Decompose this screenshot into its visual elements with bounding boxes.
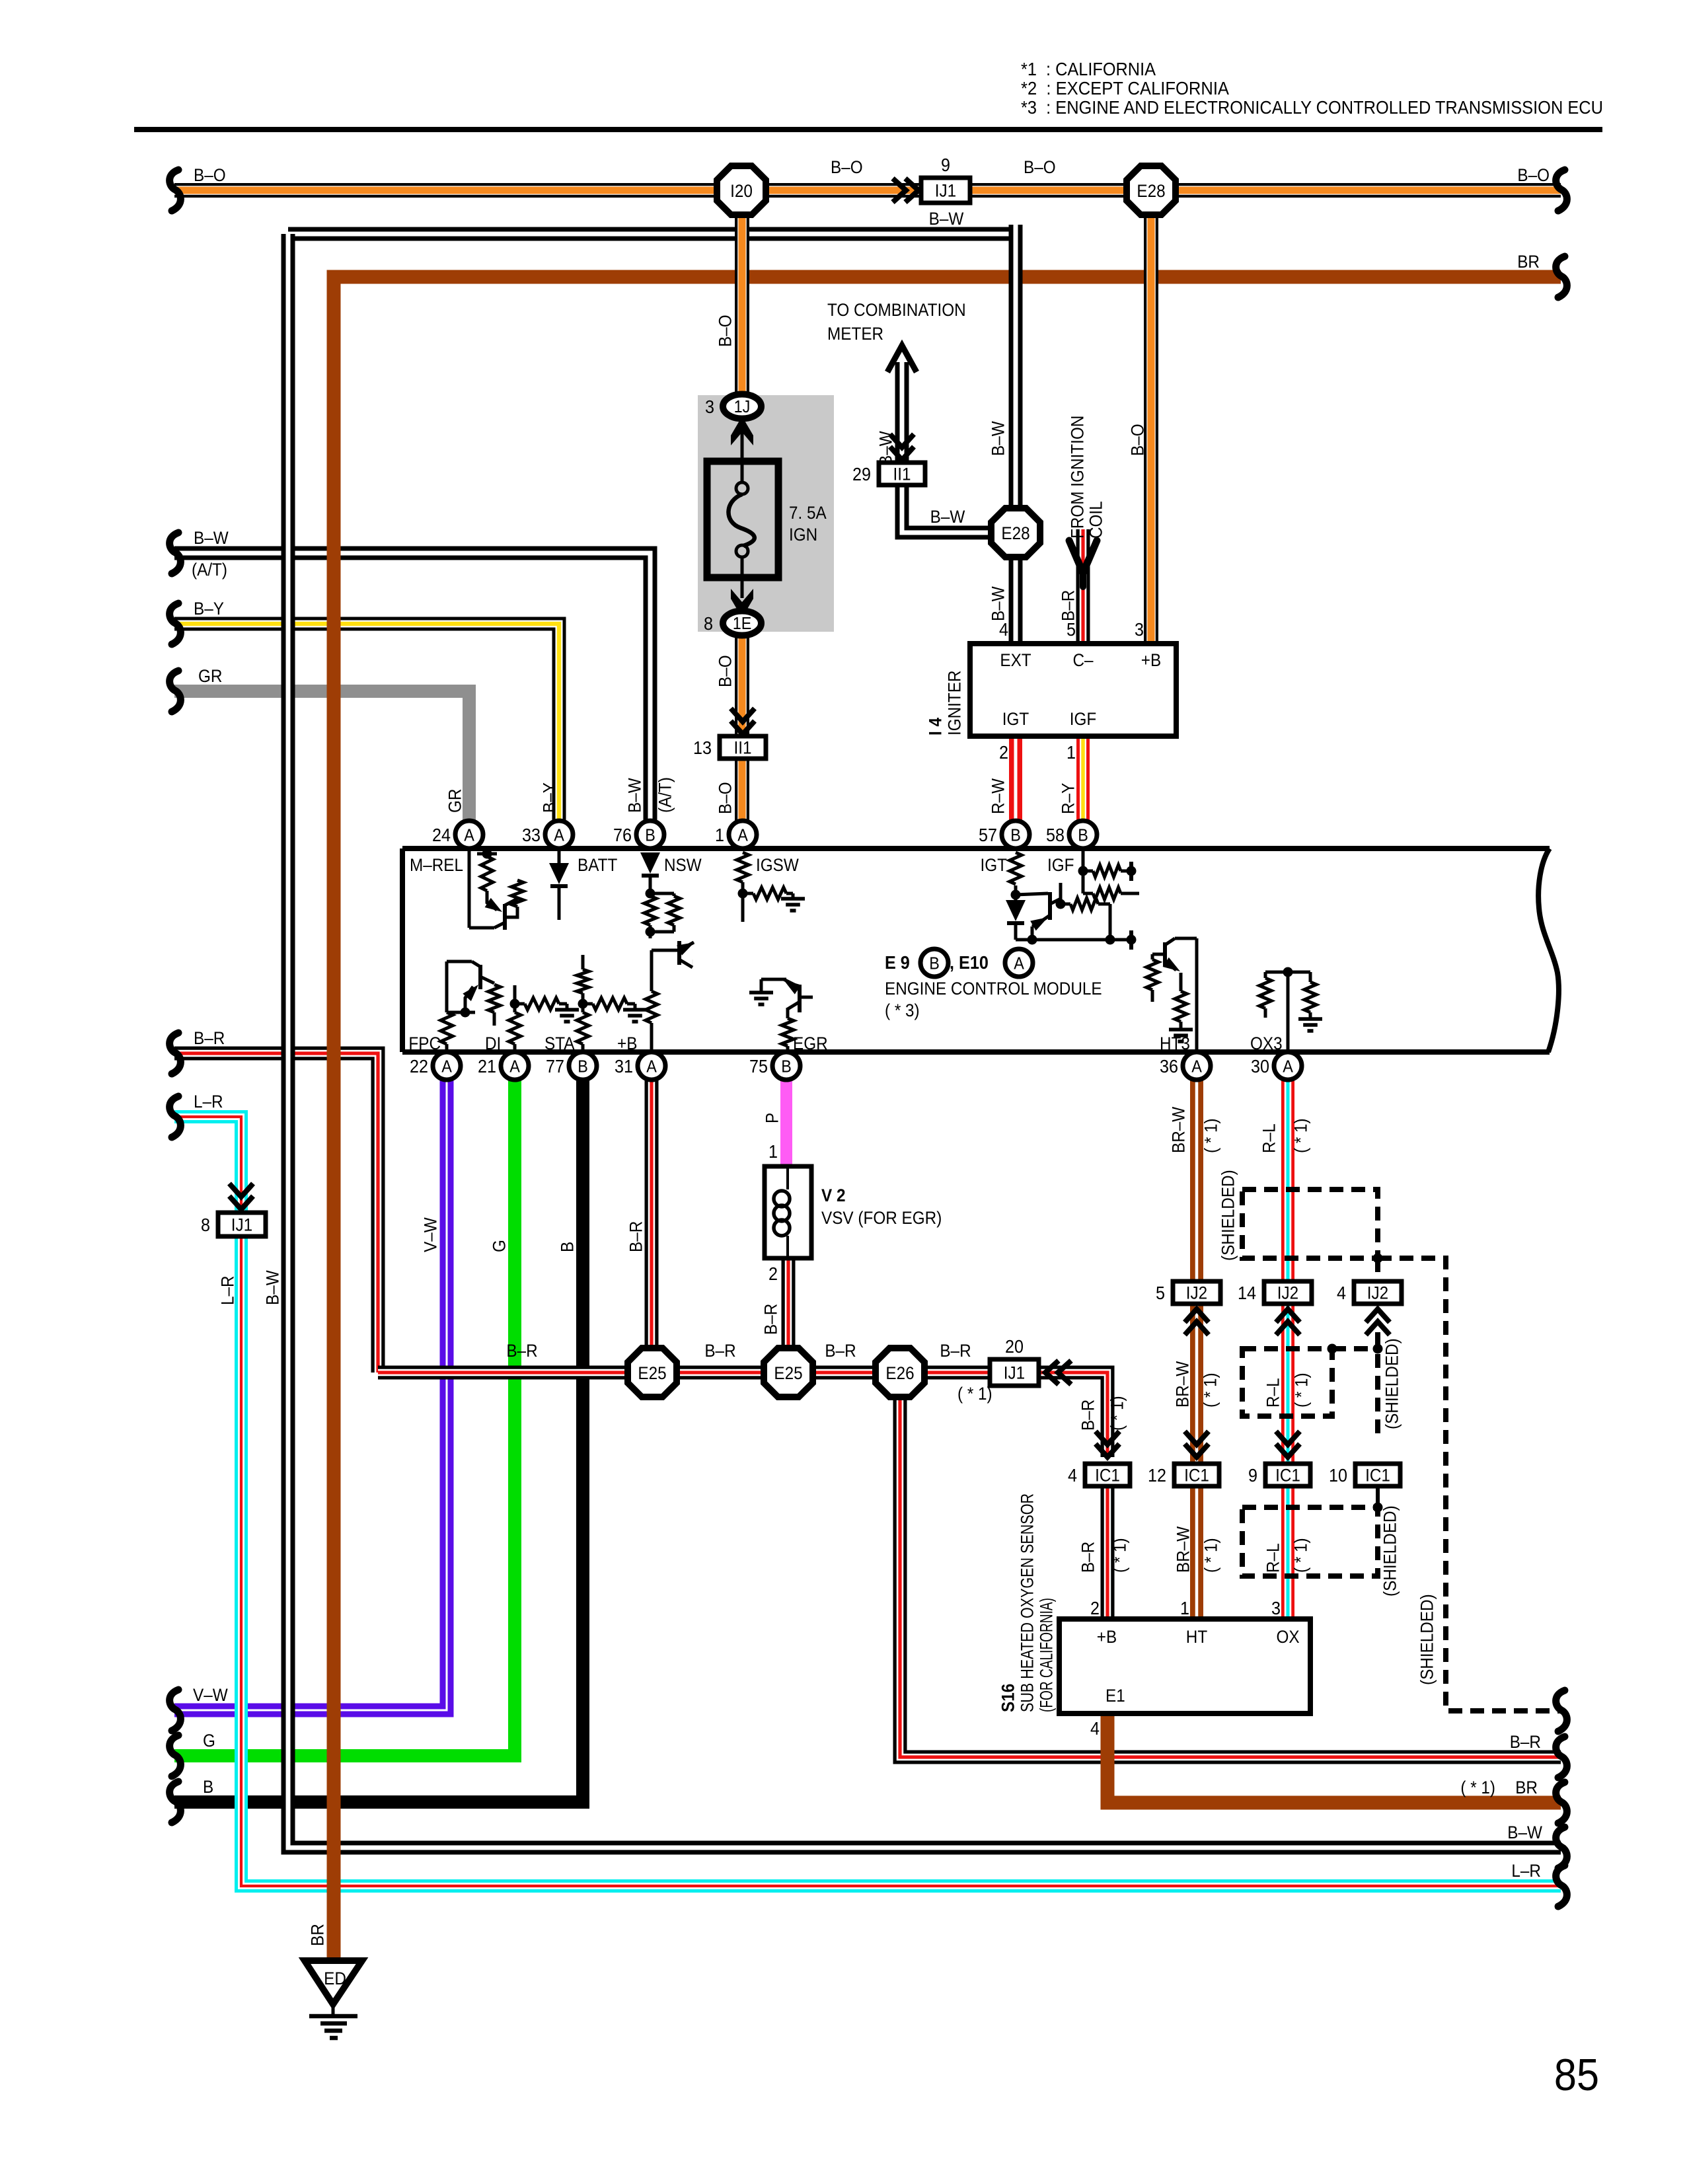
svg-text:B: B xyxy=(578,1057,588,1076)
svg-text:1: 1 xyxy=(1180,1598,1189,1618)
svg-text:29: 29 xyxy=(852,464,871,484)
svg-text:IGN: IGN xyxy=(789,525,817,545)
svg-text:+B: +B xyxy=(1097,1627,1117,1647)
svg-text:BATT: BATT xyxy=(578,855,617,875)
svg-text:B: B xyxy=(558,1242,578,1252)
svg-text:B–R: B–R xyxy=(1078,1542,1098,1573)
svg-text:B–R: B–R xyxy=(1059,590,1078,621)
svg-text:58: 58 xyxy=(1046,825,1065,845)
svg-text:9: 9 xyxy=(1248,1465,1257,1486)
svg-text:HT: HT xyxy=(1186,1627,1207,1647)
svg-text:(A/T): (A/T) xyxy=(655,777,675,813)
svg-text:1: 1 xyxy=(1067,742,1076,763)
svg-text:B–W: B–W xyxy=(625,778,645,813)
svg-text:(FOR CALIFORNIA): (FOR CALIFORNIA) xyxy=(1037,1598,1057,1712)
svg-text:( * 1): ( * 1) xyxy=(1110,1538,1130,1573)
svg-text:M–REL: M–REL xyxy=(410,855,463,875)
svg-text:GR: GR xyxy=(445,789,465,813)
svg-text:( * 1): ( * 1) xyxy=(1291,1118,1311,1153)
svg-text:( * 1): ( * 1) xyxy=(1201,1538,1221,1573)
svg-text:G: G xyxy=(490,1240,509,1252)
svg-text:B–Y: B–Y xyxy=(540,782,560,813)
svg-text:IJ1: IJ1 xyxy=(231,1215,252,1235)
svg-text:E28: E28 xyxy=(1137,181,1165,201)
svg-text:IJ1: IJ1 xyxy=(935,181,956,201)
svg-text:, E10: , E10 xyxy=(950,952,989,973)
svg-text:METER: METER xyxy=(827,324,883,344)
svg-text:B–W: B–W xyxy=(263,1270,283,1305)
svg-text:( * 1): ( * 1) xyxy=(1291,1538,1311,1573)
svg-text:5: 5 xyxy=(1156,1283,1165,1303)
svg-text:IC1: IC1 xyxy=(1184,1466,1209,1486)
svg-text:E26: E26 xyxy=(885,1363,914,1383)
svg-text:22: 22 xyxy=(410,1056,428,1076)
svg-text:24: 24 xyxy=(432,825,451,845)
svg-text:IJ1: IJ1 xyxy=(1004,1363,1025,1383)
svg-text:B–O: B–O xyxy=(1517,165,1550,185)
svg-text:B–W: B–W xyxy=(876,431,896,466)
svg-text:2: 2 xyxy=(768,1263,778,1284)
svg-text:(SHIELDED): (SHIELDED) xyxy=(1417,1594,1437,1685)
svg-text:SUB HEATED OXYGEN SENSOR: SUB HEATED OXYGEN SENSOR xyxy=(1018,1493,1037,1712)
svg-text:DI: DI xyxy=(485,1034,501,1053)
svg-text:R–L: R–L xyxy=(1263,1378,1283,1408)
svg-text:( * 1): ( * 1) xyxy=(957,1384,992,1404)
svg-text:E 9: E 9 xyxy=(885,952,910,973)
svg-text:7. 5A: 7. 5A xyxy=(789,503,827,523)
svg-text:A: A xyxy=(441,1057,452,1076)
svg-text:10: 10 xyxy=(1329,1465,1347,1486)
svg-text:14: 14 xyxy=(1238,1283,1256,1303)
svg-text:A: A xyxy=(1191,1057,1202,1076)
svg-text:B–R: B–R xyxy=(1510,1732,1541,1752)
svg-text:OX: OX xyxy=(1276,1627,1299,1647)
svg-text:1E: 1E xyxy=(733,613,752,633)
svg-text:E25: E25 xyxy=(774,1363,802,1383)
svg-text:IC1: IC1 xyxy=(1095,1466,1120,1486)
svg-text:IC1: IC1 xyxy=(1275,1466,1300,1486)
svg-text:3: 3 xyxy=(1135,619,1144,640)
svg-text:B–O: B–O xyxy=(1024,157,1056,177)
svg-text:*3 : ENGINE AND ELECTRONICALL: *3 : ENGINE AND ELECTRONICALLY CONTROLLE… xyxy=(1021,97,1603,118)
svg-text:8: 8 xyxy=(704,613,713,634)
svg-text:G: G xyxy=(203,1731,215,1751)
svg-text:GR: GR xyxy=(198,666,223,686)
svg-text:2: 2 xyxy=(1090,1598,1100,1618)
svg-text:B–R: B–R xyxy=(761,1304,781,1335)
svg-text:1: 1 xyxy=(768,1141,778,1162)
svg-text:E28: E28 xyxy=(1001,523,1030,543)
svg-text:A: A xyxy=(646,1057,657,1076)
svg-text:A: A xyxy=(737,825,748,845)
svg-text:FROM IGNITION: FROM IGNITION xyxy=(1068,416,1088,539)
svg-text:L–R: L–R xyxy=(194,1092,223,1111)
svg-text:BR–W: BR–W xyxy=(1173,1361,1193,1408)
svg-text:EGR: EGR xyxy=(793,1034,828,1053)
svg-text:S16: S16 xyxy=(998,1684,1018,1712)
svg-text:IC1: IC1 xyxy=(1365,1466,1390,1486)
svg-text:R–Y: R–Y xyxy=(1059,783,1078,814)
svg-text:*2 : EXCEPT CALIFORNIA: *2 : EXCEPT CALIFORNIA xyxy=(1021,78,1229,98)
svg-text:13: 13 xyxy=(693,737,712,758)
svg-text:R–L: R–L xyxy=(1263,1543,1283,1573)
svg-text:HT3: HT3 xyxy=(1160,1034,1190,1053)
svg-text:4: 4 xyxy=(1090,1718,1100,1739)
svg-text:R–L: R–L xyxy=(1259,1123,1279,1153)
svg-text:B–R: B–R xyxy=(825,1341,856,1361)
svg-text:(SHIELDED): (SHIELDED) xyxy=(1380,1505,1400,1597)
svg-text:1: 1 xyxy=(715,825,724,845)
svg-text:B–O: B–O xyxy=(1128,424,1148,456)
svg-text:3: 3 xyxy=(705,396,714,417)
svg-text:C–: C– xyxy=(1072,650,1093,670)
svg-text:COIL: COIL xyxy=(1086,501,1106,539)
svg-text:B–W: B–W xyxy=(989,586,1008,621)
svg-text:IGF: IGF xyxy=(1070,709,1097,729)
svg-text:B–R: B–R xyxy=(194,1028,225,1048)
svg-text:5: 5 xyxy=(1067,619,1076,640)
svg-text:76: 76 xyxy=(613,825,632,845)
svg-text:B: B xyxy=(781,1057,792,1076)
svg-text:IGT: IGT xyxy=(981,855,1008,875)
svg-text:IJ2: IJ2 xyxy=(1277,1283,1298,1303)
svg-text:E1: E1 xyxy=(1105,1686,1125,1706)
svg-text:8: 8 xyxy=(201,1215,210,1235)
svg-text:( * 1): ( * 1) xyxy=(1460,1778,1495,1797)
svg-text:BR: BR xyxy=(1515,1778,1538,1797)
svg-text:ED: ED xyxy=(324,1969,346,1988)
svg-text:ENGINE CONTROL MODULE: ENGINE CONTROL MODULE xyxy=(885,979,1102,998)
svg-text:V 2: V 2 xyxy=(821,1186,846,1205)
svg-text:B: B xyxy=(1010,825,1021,845)
svg-text:( * 1): ( * 1) xyxy=(1292,1373,1312,1408)
svg-text:A: A xyxy=(1014,954,1024,973)
svg-text:V–W: V–W xyxy=(193,1685,228,1705)
svg-text:3: 3 xyxy=(1271,1598,1281,1618)
svg-text:P: P xyxy=(763,1113,782,1123)
svg-text:BR–W: BR–W xyxy=(1174,1526,1193,1573)
svg-text:B–O: B–O xyxy=(716,315,735,347)
svg-text:IGT: IGT xyxy=(1002,709,1030,729)
svg-text:(SHIELDED): (SHIELDED) xyxy=(1218,1170,1238,1261)
svg-text:OX3: OX3 xyxy=(1250,1034,1283,1053)
svg-text:BR: BR xyxy=(308,1924,328,1946)
svg-text:B–R: B–R xyxy=(704,1341,735,1361)
svg-text:+B: +B xyxy=(1141,650,1161,670)
svg-text:B–Y: B–Y xyxy=(194,599,224,619)
svg-text:30: 30 xyxy=(1251,1056,1269,1076)
svg-text:V–W: V–W xyxy=(421,1217,441,1252)
svg-text:B: B xyxy=(1078,825,1088,845)
svg-text:I20: I20 xyxy=(730,181,753,201)
svg-text:B–O: B–O xyxy=(831,157,863,177)
svg-text:B–O: B–O xyxy=(194,165,226,185)
svg-text:IJ2: IJ2 xyxy=(1367,1283,1388,1303)
svg-text:L–R: L–R xyxy=(1511,1861,1541,1881)
svg-text:B–W: B–W xyxy=(929,209,964,229)
svg-text:EXT: EXT xyxy=(1000,650,1031,670)
svg-text:TO COMBINATION: TO COMBINATION xyxy=(827,300,966,320)
svg-text:IGF: IGF xyxy=(1047,855,1074,875)
svg-text:21: 21 xyxy=(478,1056,496,1076)
svg-text:A: A xyxy=(509,1057,520,1076)
svg-text:L–R: L–R xyxy=(218,1275,238,1305)
svg-text:4: 4 xyxy=(999,619,1008,640)
svg-text:31: 31 xyxy=(615,1056,633,1076)
svg-text:( * 1): ( * 1) xyxy=(1107,1396,1127,1431)
svg-text:B–R: B–R xyxy=(1078,1400,1098,1431)
svg-text:B–W: B–W xyxy=(1507,1823,1542,1842)
svg-text:2: 2 xyxy=(999,742,1008,763)
svg-text:B–O: B–O xyxy=(716,655,735,687)
svg-text:75: 75 xyxy=(749,1056,768,1076)
svg-text:( * 1): ( * 1) xyxy=(1201,1373,1220,1408)
svg-text:B–W: B–W xyxy=(194,528,229,548)
svg-text:9: 9 xyxy=(941,155,950,175)
svg-text:A: A xyxy=(554,825,564,845)
svg-text:B–R: B–R xyxy=(626,1221,646,1252)
svg-text:36: 36 xyxy=(1160,1056,1178,1076)
svg-text:NSW: NSW xyxy=(664,855,702,875)
svg-text:II1: II1 xyxy=(734,738,752,758)
svg-text:E25: E25 xyxy=(638,1363,666,1383)
svg-text:B–R: B–R xyxy=(506,1341,537,1361)
svg-text:20: 20 xyxy=(1005,1336,1024,1357)
svg-text:+B: +B xyxy=(617,1034,637,1053)
svg-text:77: 77 xyxy=(546,1056,564,1076)
svg-text:B: B xyxy=(645,825,655,845)
svg-text:57: 57 xyxy=(979,825,997,845)
svg-text:(SHIELDED): (SHIELDED) xyxy=(1382,1338,1402,1429)
svg-text:STA: STA xyxy=(544,1034,575,1053)
svg-text:(A/T): (A/T) xyxy=(192,560,227,580)
svg-text:A: A xyxy=(1283,1057,1293,1076)
svg-text:A: A xyxy=(464,825,474,845)
svg-text:B–O: B–O xyxy=(716,782,735,814)
svg-text:I 4: I 4 xyxy=(926,718,946,735)
svg-text:IGNITER: IGNITER xyxy=(945,670,965,735)
svg-text:FPC: FPC xyxy=(408,1034,441,1053)
svg-text:BR–W: BR–W xyxy=(1169,1106,1189,1153)
svg-text:4: 4 xyxy=(1337,1283,1346,1303)
svg-text:33: 33 xyxy=(522,825,541,845)
svg-text:1J: 1J xyxy=(734,396,751,416)
svg-text:B: B xyxy=(203,1777,213,1797)
svg-text:VSV (FOR EGR): VSV (FOR EGR) xyxy=(821,1208,942,1228)
svg-text:B–W: B–W xyxy=(930,507,965,527)
svg-text:B: B xyxy=(929,954,940,973)
svg-text:( * 1): ( * 1) xyxy=(1201,1118,1221,1153)
svg-text:B–W: B–W xyxy=(989,421,1008,456)
svg-text:BR: BR xyxy=(1517,252,1540,272)
svg-text:IGSW: IGSW xyxy=(756,855,799,875)
svg-text:( * 3): ( * 3) xyxy=(885,1000,920,1020)
svg-text:4: 4 xyxy=(1068,1465,1077,1486)
svg-text:*1 : CALIFORNIA: *1 : CALIFORNIA xyxy=(1021,59,1156,79)
svg-text:B–R: B–R xyxy=(940,1341,971,1361)
svg-text:R–W: R–W xyxy=(989,778,1008,814)
svg-text:12: 12 xyxy=(1148,1465,1166,1486)
svg-text:II1: II1 xyxy=(893,465,911,484)
svg-text:85: 85 xyxy=(1554,2050,1599,2100)
svg-text:IJ2: IJ2 xyxy=(1186,1283,1207,1303)
